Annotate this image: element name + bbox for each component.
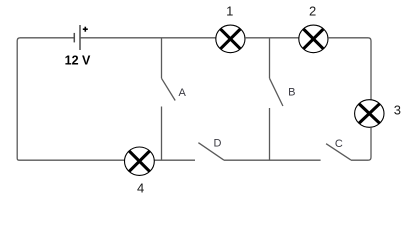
wire: lamp 4 to switch D left contact	[154, 159, 195, 161]
wire: lamp 1 to lamp 2	[245, 37, 299, 39]
svg-text:1: 1	[226, 4, 233, 19]
switch A (open), branch from top wire	[162, 38, 176, 160]
switch B (open), branch from top wire	[270, 38, 283, 160]
svg-text:C: C	[335, 138, 343, 150]
wire: switch D pivot to switch C left contact	[224, 159, 321, 161]
svg-text:A: A	[179, 87, 187, 99]
wire: lamp 2 right, down right side to lamp 3	[328, 38, 371, 100]
lamp 3	[355, 100, 384, 128]
wire: lamp 3 down to bottom-right corner, to switch C pivot	[351, 127, 371, 160]
svg-text:12 V: 12 V	[65, 53, 91, 67]
lamp 2	[299, 25, 328, 53]
battery B1 short plate (negative)	[73, 33, 75, 43]
svg-text:3: 3	[394, 103, 401, 118]
lamp 4	[124, 147, 154, 175]
switch C (open) blade	[326, 144, 351, 160]
svg-text:2: 2	[309, 4, 316, 19]
svg-text:4: 4	[137, 180, 144, 195]
lamp 1	[216, 25, 245, 53]
wire left loop: battery minus down left side to lamp 4	[17, 38, 125, 160]
switch D (open) blade	[198, 143, 224, 161]
battery B1 long plate (positive)	[79, 25, 81, 50]
wire: battery plus to lamp 1	[80, 37, 216, 39]
svg-text:D: D	[214, 137, 222, 149]
label + (battery polarity)	[83, 27, 88, 32]
svg-text:B: B	[288, 86, 295, 98]
